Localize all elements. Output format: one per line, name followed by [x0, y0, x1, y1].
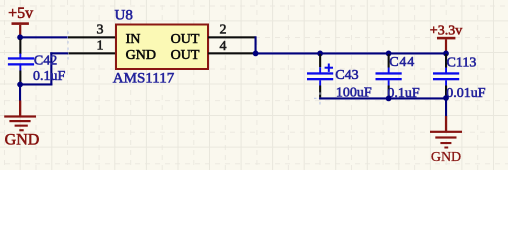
ground GND (left): [4, 101, 39, 149]
svg-text:U8: U8: [115, 7, 133, 23]
svg-text:OUT: OUT: [171, 32, 200, 47]
svg-text:OUT: OUT: [171, 48, 200, 63]
node pin4 junction: [253, 51, 259, 57]
pin 4 of U8: [208, 52, 256, 54]
svg-text:+5v: +5v: [8, 5, 33, 22]
capacitor C43 (polarized): [307, 54, 333, 99]
capacitor C44: [376, 54, 402, 99]
pin 2 of U8: [208, 36, 256, 38]
node C113 bottom junction: [443, 95, 449, 101]
wire output rail to +3.3v: [256, 52, 447, 54]
wire +5v to pin 3: [19, 36, 68, 38]
svg-text:2: 2: [220, 23, 227, 38]
pin 3 of U8: [68, 36, 116, 38]
power port +5v: [8, 5, 33, 36]
svg-text:C44: C44: [389, 55, 415, 70]
svg-text:3: 3: [97, 22, 104, 37]
off-grid mark pin1 end: [67, 48, 69, 60]
svg-text:C43: C43: [335, 68, 358, 83]
ground GND (right): [430, 116, 462, 165]
svg-text:1: 1: [97, 39, 104, 54]
node +3.3v junction: [443, 51, 449, 57]
svg-text:+3.3v: +3.3v: [430, 23, 462, 38]
svg-text:4: 4: [220, 39, 227, 54]
svg-text:C42: C42: [34, 54, 57, 69]
wire pin 2 down to pin 4 row: [255, 36, 257, 53]
svg-text:0.01uF: 0.01uF: [446, 86, 486, 101]
power port +3.3v: [430, 23, 462, 52]
wire C42 bottom to GND: [19, 85, 21, 102]
off-grid mark pin3 end: [67, 32, 69, 44]
svg-text:GND: GND: [431, 150, 461, 165]
svg-text:GND: GND: [5, 132, 40, 149]
off-grid mark C43 bottom corner: [314, 92, 326, 104]
wire pin 1 to C42 bottom node: [19, 52, 68, 85]
node +5v junction: [17, 34, 23, 40]
svg-text:0.1uF: 0.1uF: [33, 69, 66, 84]
node C44 top junction: [386, 51, 392, 57]
wire bottom rail C43 to GND: [319, 97, 447, 99]
node C44 bottom junction: [386, 96, 392, 102]
pin 1 of U8: [68, 52, 116, 54]
svg-text:IN: IN: [126, 32, 141, 47]
wire C113 bottom to GND: [445, 98, 447, 117]
regulator U8 (AMS1117) body: [116, 25, 208, 70]
svg-text:AMS1117: AMS1117: [113, 71, 175, 87]
capacitor C42: [8, 39, 34, 83]
svg-text:C113: C113: [447, 55, 477, 70]
svg-text:GND: GND: [126, 48, 156, 63]
capacitor C113: [433, 54, 459, 98]
node C43 top junction: [317, 51, 323, 57]
node C42 bottom junction: [17, 82, 23, 88]
